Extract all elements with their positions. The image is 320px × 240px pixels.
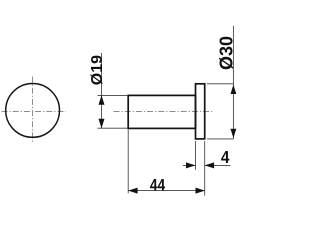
- svg-text:Ø19: Ø19: [89, 55, 106, 85]
- svg-text:Ø30: Ø30: [216, 36, 236, 70]
- svg-text:4: 4: [221, 148, 230, 167]
- svg-text:44: 44: [150, 176, 166, 194]
